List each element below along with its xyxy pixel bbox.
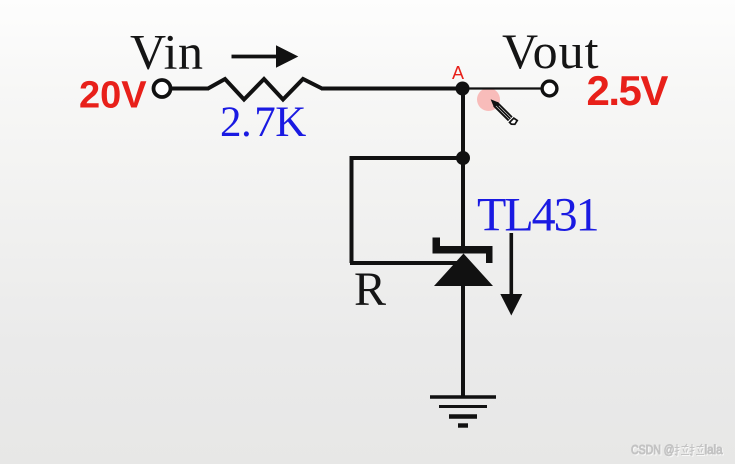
highlight marker at node A (477, 88, 500, 111)
wire node A to output terminal (462, 87, 542, 89)
wire feedback top (350, 156, 463, 160)
svg-text:Vout: Vout (502, 23, 600, 79)
wire resistor to node A (321, 87, 464, 91)
arrow Vin direction (232, 45, 299, 67)
terminal Vout (542, 81, 557, 96)
svg-text:2.7K: 2.7K (220, 99, 306, 146)
current arrow down (500, 233, 522, 316)
TL431 U1 (433, 238, 494, 287)
cursor pen (488, 97, 518, 127)
ground (430, 397, 496, 426)
wire TL431 anode to ground (461, 285, 465, 397)
node A junction dot (456, 82, 470, 96)
svg-text:Vin: Vin (130, 24, 204, 80)
wire feedback bottom to reference (350, 261, 458, 265)
wire junction to TL431 cathode (461, 158, 465, 248)
svg-text:20V: 20V (79, 75, 147, 117)
svg-text:TL431: TL431 (477, 189, 598, 242)
svg-text:R: R (354, 263, 386, 316)
junction dot feedback (456, 151, 470, 165)
terminal Vin (154, 80, 171, 97)
resistor R1 2.7K (208, 79, 322, 100)
wire feedback left (350, 156, 354, 263)
svg-text:A: A (452, 63, 464, 83)
wire terminal to resistor (171, 87, 210, 91)
svg-text:2.5V: 2.5V (587, 67, 669, 114)
wire node A down to junction (461, 89, 465, 159)
